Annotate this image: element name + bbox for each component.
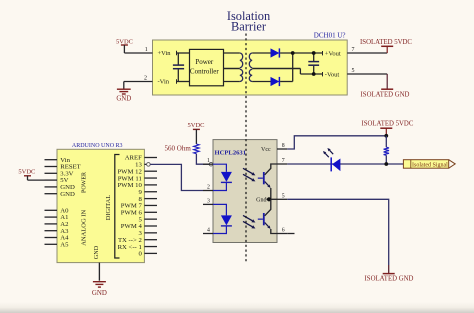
svg-text:Power: Power (195, 58, 214, 66)
svg-text:-Vout: -Vout (325, 72, 340, 79)
svg-text:7: 7 (282, 158, 285, 164)
svg-text:Barrier: Barrier (231, 20, 267, 34)
svg-text:ISOLATED 5VDC: ISOLATED 5VDC (361, 120, 413, 127)
svg-text:1: 1 (145, 47, 148, 53)
svg-text:ARDUINO UNO R3: ARDUINO UNO R3 (72, 143, 123, 149)
svg-text:Gnd: Gnd (256, 198, 266, 204)
svg-text:2: 2 (207, 185, 210, 191)
svg-text:+Vout: +Vout (325, 51, 341, 58)
svg-text:6: 6 (282, 228, 285, 234)
svg-text:5: 5 (352, 68, 355, 74)
svg-text:8: 8 (282, 143, 285, 149)
svg-text:1: 1 (207, 158, 210, 164)
svg-text:DIGITAL: DIGITAL (105, 195, 112, 220)
svg-text:-Vin: -Vin (158, 78, 170, 85)
svg-text:560 Ohm: 560 Ohm (165, 144, 192, 152)
svg-text:Isolated Signal: Isolated Signal (412, 163, 448, 169)
svg-text:+Vin: +Vin (158, 50, 172, 57)
svg-text:2: 2 (144, 76, 147, 82)
svg-text:4: 4 (207, 228, 210, 234)
svg-text:HCPL2631: HCPL2631 (215, 149, 247, 156)
svg-text:Controller: Controller (190, 68, 219, 76)
svg-text:ISOLATED GND: ISOLATED GND (365, 276, 414, 283)
svg-text:GND: GND (93, 245, 100, 259)
svg-text:3: 3 (207, 198, 210, 204)
svg-text:5VDC: 5VDC (18, 169, 35, 176)
svg-text:ISOLATED GND: ISOLATED GND (361, 92, 410, 99)
svg-text:GND: GND (92, 290, 107, 297)
svg-text:GND: GND (116, 95, 131, 102)
svg-text:ISOLATED 5VDC: ISOLATED 5VDC (360, 39, 412, 46)
svg-text:DCH01 U?: DCH01 U? (314, 32, 346, 40)
svg-text:5VDC: 5VDC (188, 122, 205, 129)
svg-text:GND: GND (60, 191, 75, 198)
svg-text:POWER: POWER (82, 172, 88, 193)
svg-text:7: 7 (352, 47, 355, 53)
svg-text:A5: A5 (60, 241, 69, 248)
svg-text:ANALOG IN: ANALOG IN (81, 210, 88, 246)
svg-text:Vcc: Vcc (261, 147, 271, 153)
svg-text:5: 5 (282, 193, 285, 199)
